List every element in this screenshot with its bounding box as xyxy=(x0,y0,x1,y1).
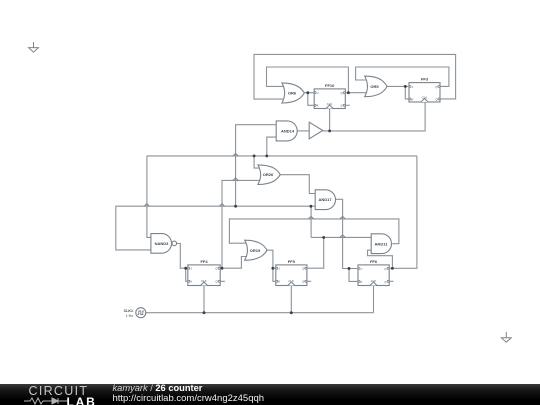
wire FF5 Q riser xyxy=(307,237,324,268)
hop y219 over AND17 in2 riser xyxy=(309,216,314,219)
and-gate AND17 xyxy=(315,190,335,210)
or-gate OR26 xyxy=(258,165,280,185)
svg-text:NAND3: NAND3 xyxy=(155,241,170,246)
svg-text:FF3: FF3 xyxy=(421,77,429,82)
wire OR26 in2 from FF4 Q riser xyxy=(222,180,261,268)
flip-flop FF3 box xyxy=(409,83,440,102)
nand-gate NAND3 body xyxy=(151,234,172,254)
and-gate AND14 xyxy=(276,121,297,141)
wire FF10 K branch xyxy=(308,93,314,106)
svg-text:AND11: AND11 xyxy=(375,241,389,246)
wire y156 right riser to FF6 Q xyxy=(389,156,417,268)
ground bottom-right xyxy=(501,332,511,342)
wire FF6 CLK drop xyxy=(373,286,375,313)
ff pin circles FF10 xyxy=(314,92,316,94)
nand-gate NAND3 bubble xyxy=(172,241,177,246)
wire y237 riser to AND17 in2 xyxy=(310,206,312,237)
ground top-left xyxy=(29,42,39,52)
wire AND14 out to buffer xyxy=(297,130,309,132)
svg-text:CLK: CLK xyxy=(327,102,333,106)
hop OR26 in2 wire over AND14 in1 riser xyxy=(233,178,238,181)
svg-text:CLK: CLK xyxy=(422,96,428,100)
wire FF4 K branch xyxy=(186,268,188,281)
wire OR26 out to AND17 in1 xyxy=(280,175,316,194)
wire AND14 in1 riser xyxy=(236,125,277,207)
svg-text:OR5: OR5 xyxy=(370,84,379,89)
wire buffer out to FF3 CLK xyxy=(323,102,425,131)
wire OR19 in2 jog from FF4 Q xyxy=(220,257,246,269)
wire FF6 K branch xyxy=(349,269,358,282)
wire FF6 Q bus y156 xyxy=(147,155,417,157)
svg-text:FF10: FF10 xyxy=(325,83,335,88)
wire OR19 out to FF5 J xyxy=(266,250,276,268)
wire AND11 out bus y219 to OR19 in1 xyxy=(229,219,399,244)
wire FF3 K branch xyxy=(405,86,409,99)
wire AND17 in2 bus y206 to NAND3 in2 xyxy=(116,206,316,250)
ff clk triangle FF10 xyxy=(326,105,333,109)
svg-text:CLK: CLK xyxy=(371,279,377,283)
or-gate OR5 xyxy=(365,76,387,97)
svg-text:AND17: AND17 xyxy=(318,197,332,202)
svg-text:CLK1: CLK1 xyxy=(124,309,133,313)
ff clk triangle FF4 xyxy=(201,282,208,286)
junction dots xyxy=(306,91,309,94)
wire FF5 K branch xyxy=(273,268,276,281)
svg-text:OR19: OR19 xyxy=(250,248,261,253)
or-gate OR19 xyxy=(245,240,267,260)
and-gate AND11 xyxy=(371,234,391,254)
svg-text:CLK: CLK xyxy=(288,279,294,283)
flip-flop FF5 box xyxy=(276,265,307,286)
wire FF5 Qbar stub xyxy=(307,280,311,282)
wire OR5 output to FF3 J xyxy=(386,85,409,87)
wire AND17 out to FF6 J xyxy=(335,199,358,268)
svg-text:AND14: AND14 xyxy=(281,128,295,133)
wire AND11 in2 jog from FF6 Q xyxy=(368,250,393,268)
wire FF6 Qbar stub xyxy=(389,280,393,282)
svg-text:CLK: CLK xyxy=(201,279,207,283)
svg-text:OR26: OR26 xyxy=(263,172,274,177)
wire FF5 CLK drop xyxy=(290,286,292,313)
hop y237 over AND17 out drop xyxy=(340,235,345,238)
ff clk triangle FF5 xyxy=(288,282,295,286)
hop y206 over NAND3 in1 riser xyxy=(144,204,149,207)
wire outer feedback loop (FF3 Qbar to OR6 lower input) xyxy=(254,54,456,99)
wire clock bus xyxy=(146,312,374,314)
clock source CLK1 xyxy=(136,308,146,318)
ff clk triangle FF6 xyxy=(370,282,377,286)
wire OR6 output to FF10 J xyxy=(304,92,314,94)
wire FF10 Qbar stub xyxy=(345,104,350,106)
wire FF10 CLK drop xyxy=(329,109,331,131)
svg-text:1 Hz: 1 Hz xyxy=(126,314,134,318)
hop y206 over FF4 Q riser xyxy=(219,204,224,207)
flip-flop FF10 box xyxy=(314,89,345,109)
svg-text:FF5: FF5 xyxy=(288,259,296,264)
flip-flop FF6 box xyxy=(358,265,389,286)
buffer triangle xyxy=(309,122,323,139)
wire FF5 Q bus y237 to AND11 in1 xyxy=(311,236,372,238)
wire left inner loop (FF10 Q to OR6 upper input) xyxy=(267,67,349,93)
or-gate OR6 xyxy=(282,83,304,103)
ff pin circles FF5 xyxy=(276,267,278,269)
ff pin circles FF6 xyxy=(358,268,360,270)
wire AND14 in2 riser xyxy=(267,137,277,156)
wire FF4 Qbar stub xyxy=(220,280,225,282)
wire OR26 in1 jog xyxy=(254,156,260,168)
wire FF4 CLK drop xyxy=(203,286,205,313)
svg-text:FF4: FF4 xyxy=(200,259,208,264)
svg-text:OR6: OR6 xyxy=(288,90,297,95)
hop y219 over AND17 out drop xyxy=(340,216,345,219)
flip-flop FF4 box xyxy=(188,265,220,286)
ff pin circles FF4 xyxy=(188,267,190,269)
ff clk triangle FF3 xyxy=(421,98,428,102)
wire y156 left riser to NAND3 in1 xyxy=(147,156,152,238)
wire FF10 Q to OR5 lower input xyxy=(345,92,366,94)
wire right inner loop (FF3 Q to OR5 upper input) xyxy=(356,67,449,86)
wire NAND3 out to FF4 J xyxy=(177,244,188,269)
ff pin circles FF3 xyxy=(409,85,411,87)
hop y156 over AND14 in1 riser xyxy=(233,153,238,156)
svg-text:FF6: FF6 xyxy=(370,259,378,264)
